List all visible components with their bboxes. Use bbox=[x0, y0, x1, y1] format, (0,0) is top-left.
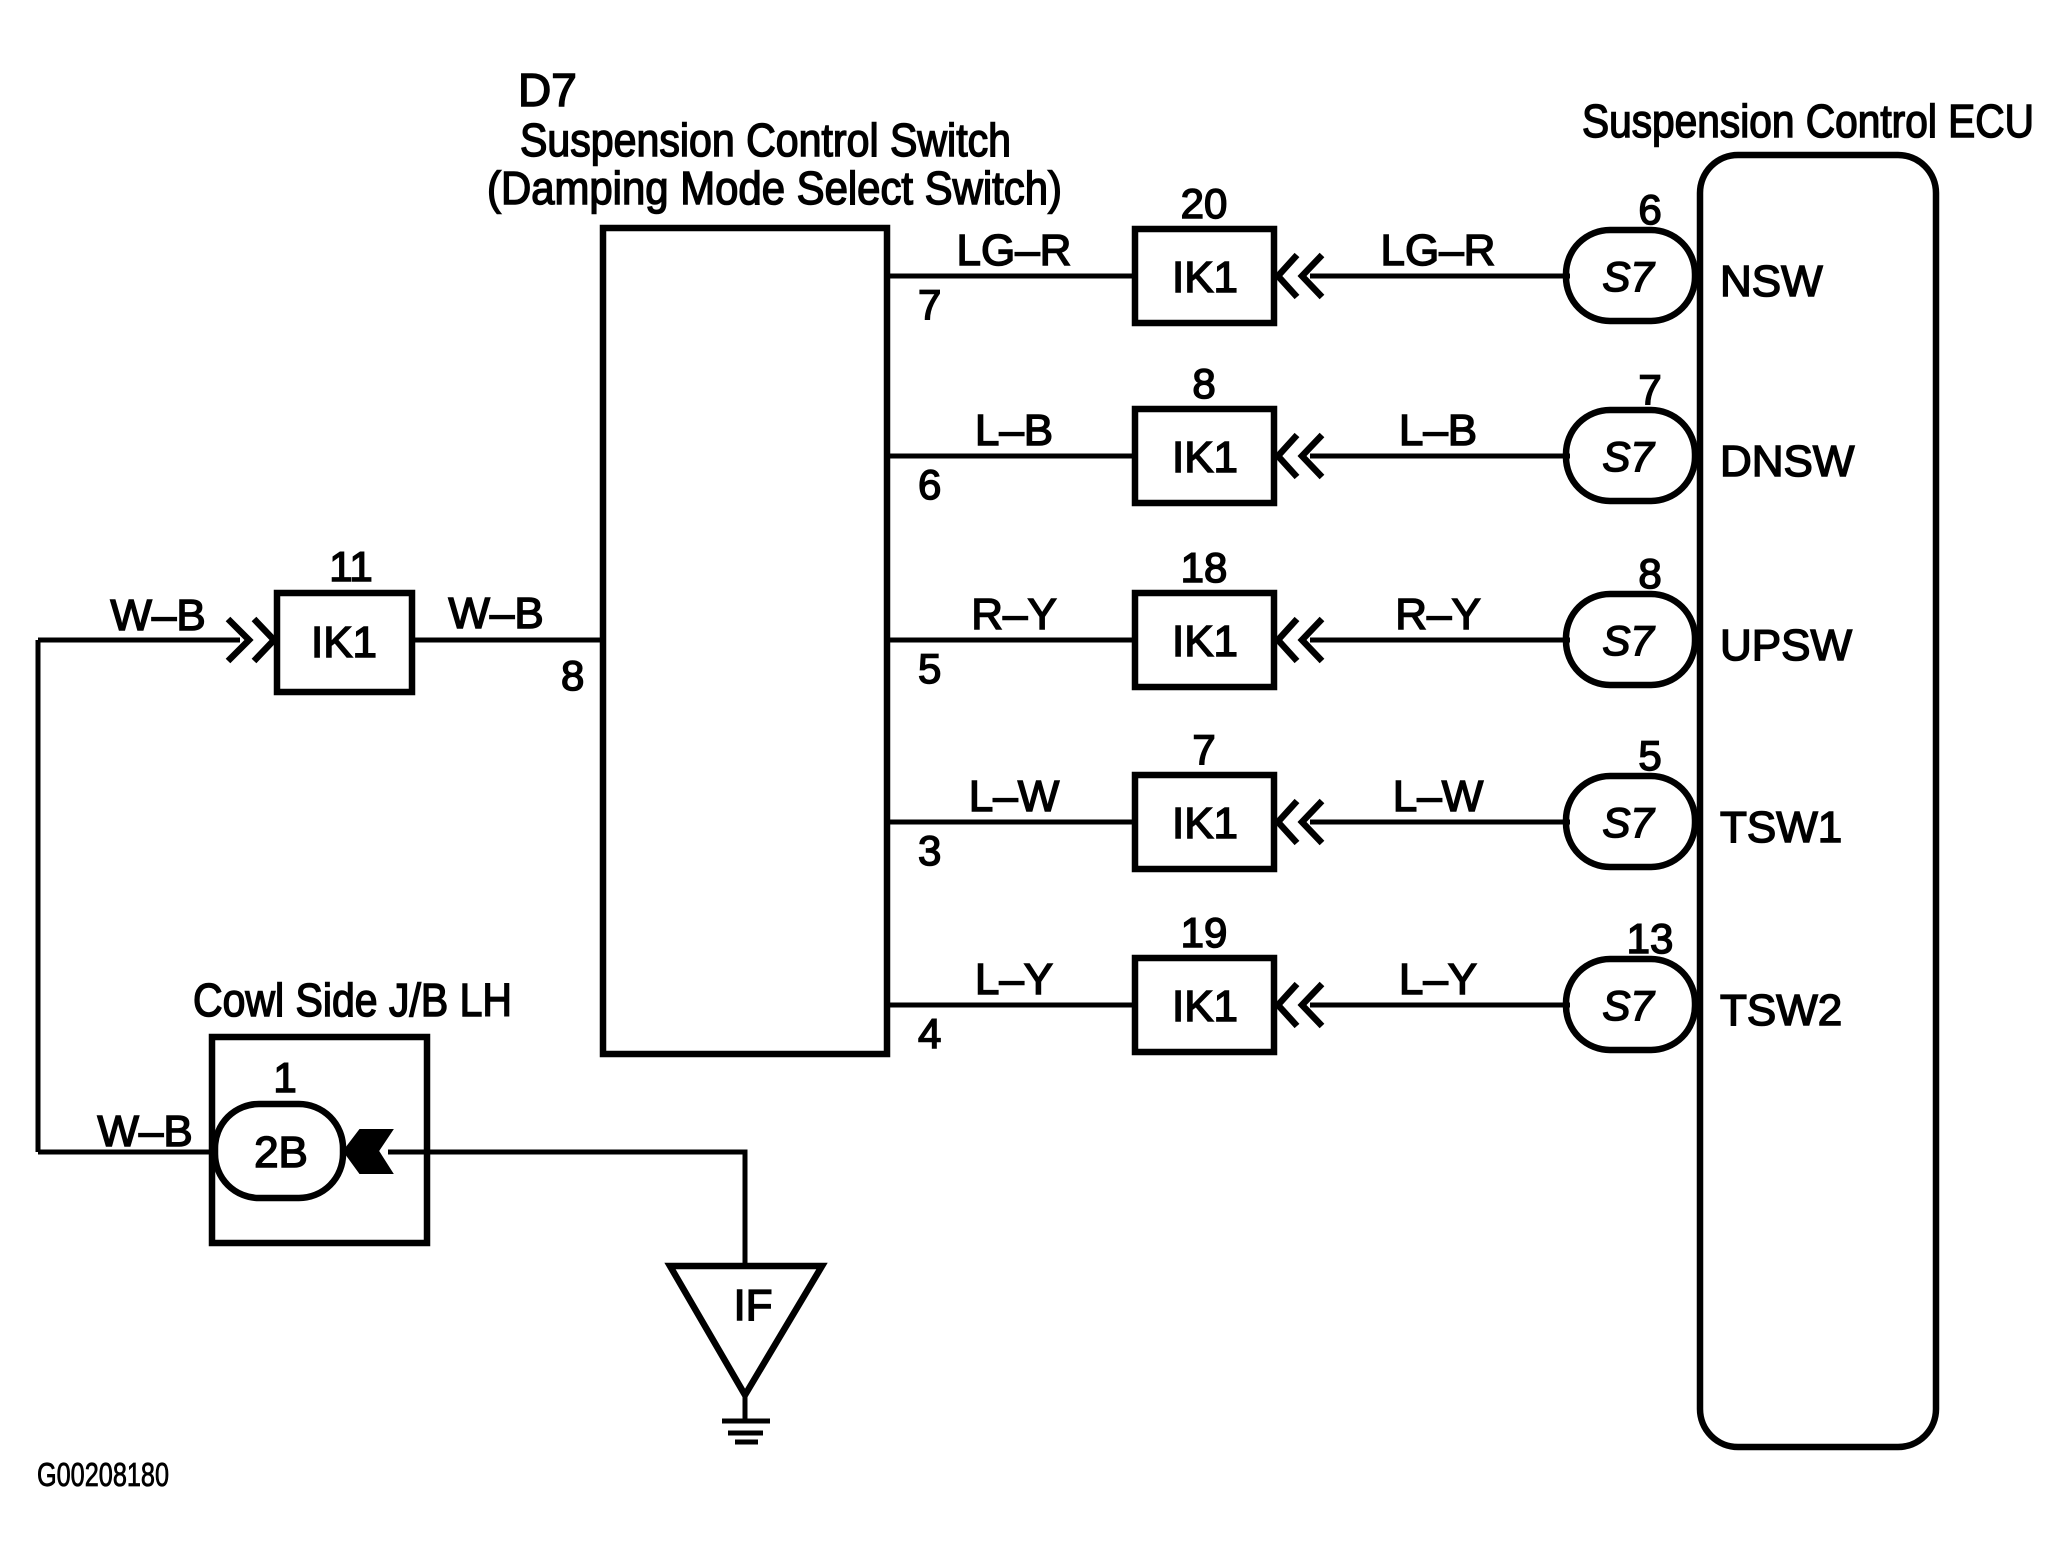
svg-text:Suspension Control Switch: Suspension Control Switch bbox=[520, 114, 1011, 166]
wire: IK1 row 2 to ECU pin 7 bbox=[1310, 454, 1570, 459]
junction connector IK1 row 5 bbox=[1135, 958, 1274, 1052]
svg-text:Cowl Side J/B LH: Cowl Side J/B LH bbox=[193, 974, 512, 1026]
connector cavity S7 row 4 bbox=[1566, 776, 1695, 867]
junction block: Cowl Side J/B LH bbox=[212, 1037, 427, 1243]
connector cavity 2B bbox=[215, 1104, 343, 1198]
double chevron arrows into IK1 row 3 bbox=[1278, 619, 1322, 661]
ground symbol IF (triangle) bbox=[670, 1266, 822, 1395]
svg-text:IK1: IK1 bbox=[311, 618, 377, 667]
svg-text:6: 6 bbox=[1638, 186, 1661, 233]
svg-text:L–Y: L–Y bbox=[975, 955, 1053, 1004]
svg-text:NSW: NSW bbox=[1720, 257, 1823, 306]
svg-text:LG–R: LG–R bbox=[1381, 226, 1496, 275]
svg-text:2B: 2B bbox=[254, 1128, 308, 1177]
svg-text:13: 13 bbox=[1627, 915, 1674, 962]
wire: IK1 row 3 to ECU pin 8 bbox=[1310, 638, 1570, 643]
wire: D7 pin 5 to junction IK1 row 3 bbox=[887, 638, 1135, 643]
svg-text:L–B: L–B bbox=[975, 406, 1053, 455]
double chevron arrows into IK1 row 5 bbox=[1278, 984, 1322, 1026]
wire: D7 pin 4 to junction IK1 row 5 bbox=[887, 1003, 1135, 1008]
svg-text:1: 1 bbox=[273, 1054, 296, 1101]
ECU block: Suspension Control ECU bbox=[1700, 155, 1936, 1447]
connector cavity S7 row 2 bbox=[1566, 410, 1695, 501]
svg-text:LG–R: LG–R bbox=[957, 226, 1072, 275]
svg-text:S7: S7 bbox=[1602, 982, 1655, 1029]
svg-text:5: 5 bbox=[1638, 732, 1661, 779]
wire: triangle tip to earth bbox=[743, 1393, 748, 1420]
svg-text:S7: S7 bbox=[1602, 253, 1655, 300]
junction connector IK1 pin 11 bbox=[277, 593, 412, 692]
svg-text:IK1: IK1 bbox=[1172, 433, 1238, 482]
wire: W-B riser into 2B cavity bbox=[38, 1150, 215, 1155]
svg-text:3: 3 bbox=[918, 827, 941, 874]
svg-text:L–W: L–W bbox=[969, 772, 1060, 821]
connector cavity S7 row 1 bbox=[1566, 230, 1695, 321]
svg-text:6: 6 bbox=[918, 461, 941, 508]
double chevron arrows into IK1 row 4 bbox=[1278, 801, 1322, 843]
svg-text:20: 20 bbox=[1181, 180, 1228, 227]
svg-text:S7: S7 bbox=[1602, 617, 1655, 664]
svg-text:4: 4 bbox=[918, 1010, 941, 1057]
connector block D7 (Suspension Control Switch) bbox=[603, 228, 887, 1054]
double chevron arrows into IK1 row 1 bbox=[1278, 255, 1322, 297]
double chevron arrows into IK1 row 2 bbox=[1278, 435, 1322, 477]
svg-text:UPSW: UPSW bbox=[1720, 621, 1852, 670]
svg-text:G00208180: G00208180 bbox=[37, 1456, 169, 1493]
svg-text:11: 11 bbox=[329, 543, 373, 590]
svg-text:19: 19 bbox=[1181, 909, 1228, 956]
wire: IK1 11 to D7 pin 8 bbox=[412, 638, 603, 643]
solid arrow into 2B bbox=[344, 1130, 392, 1173]
svg-text:(Damping Mode Select Switch): (Damping Mode Select Switch) bbox=[487, 162, 1062, 214]
svg-text:IK1: IK1 bbox=[1172, 253, 1238, 302]
earth ground stack bbox=[722, 1419, 770, 1424]
svg-text:8: 8 bbox=[561, 652, 584, 699]
svg-text:R–Y: R–Y bbox=[971, 590, 1057, 639]
wire: 2B to ground triangle IF bbox=[388, 1152, 745, 1266]
svg-text:L–B: L–B bbox=[1399, 406, 1477, 455]
connector cavity S7 row 5 bbox=[1566, 959, 1695, 1050]
svg-text:8: 8 bbox=[1638, 550, 1661, 597]
svg-text:5: 5 bbox=[918, 645, 941, 692]
double chevron arrows into IK1 11 bbox=[228, 619, 274, 661]
wire: left vertical W-B riser bbox=[36, 640, 41, 1152]
svg-text:7: 7 bbox=[918, 281, 941, 328]
svg-text:S7: S7 bbox=[1602, 799, 1655, 846]
wire: IK1 row 1 to ECU pin 6 bbox=[1310, 274, 1570, 279]
svg-text:TSW1: TSW1 bbox=[1720, 803, 1842, 852]
wire: D7 pin 7 to junction IK1 row 1 bbox=[887, 274, 1135, 279]
svg-text:7: 7 bbox=[1192, 726, 1215, 773]
svg-text:8: 8 bbox=[1192, 360, 1215, 407]
svg-text:TSW2: TSW2 bbox=[1720, 986, 1842, 1035]
svg-text:D7: D7 bbox=[518, 64, 577, 116]
svg-text:W–B: W–B bbox=[448, 589, 543, 638]
wire: W-B from ground net up to junction IK1 pin 11 bbox=[38, 638, 240, 643]
svg-text:18: 18 bbox=[1181, 544, 1228, 591]
wire: D7 pin 3 to junction IK1 row 4 bbox=[887, 820, 1135, 825]
junction connector IK1 row 2 bbox=[1135, 409, 1274, 503]
svg-text:IK1: IK1 bbox=[1172, 982, 1238, 1031]
junction connector IK1 row 4 bbox=[1135, 775, 1274, 869]
svg-text:L–Y: L–Y bbox=[1399, 955, 1477, 1004]
svg-text:L–W: L–W bbox=[1393, 772, 1484, 821]
svg-text:IK1: IK1 bbox=[1172, 799, 1238, 848]
svg-text:W–B: W–B bbox=[97, 1107, 192, 1156]
svg-text:7: 7 bbox=[1638, 366, 1661, 413]
svg-text:W–B: W–B bbox=[110, 591, 205, 640]
svg-text:IK1: IK1 bbox=[1172, 617, 1238, 666]
svg-text:DNSW: DNSW bbox=[1720, 437, 1855, 486]
junction connector IK1 row 1 bbox=[1135, 229, 1274, 323]
junction connector IK1 row 3 bbox=[1135, 593, 1274, 687]
wire: IK1 row 5 to ECU pin 13 bbox=[1310, 1003, 1570, 1008]
svg-text:Suspension Control ECU: Suspension Control ECU bbox=[1582, 95, 2034, 147]
svg-text:R–Y: R–Y bbox=[1395, 590, 1481, 639]
svg-text:IF: IF bbox=[733, 1281, 772, 1330]
wire: D7 pin 6 to junction IK1 row 2 bbox=[887, 454, 1135, 459]
svg-text:S7: S7 bbox=[1602, 433, 1655, 480]
connector cavity S7 row 3 bbox=[1566, 594, 1695, 685]
wire: IK1 row 4 to ECU pin 5 bbox=[1310, 820, 1570, 825]
